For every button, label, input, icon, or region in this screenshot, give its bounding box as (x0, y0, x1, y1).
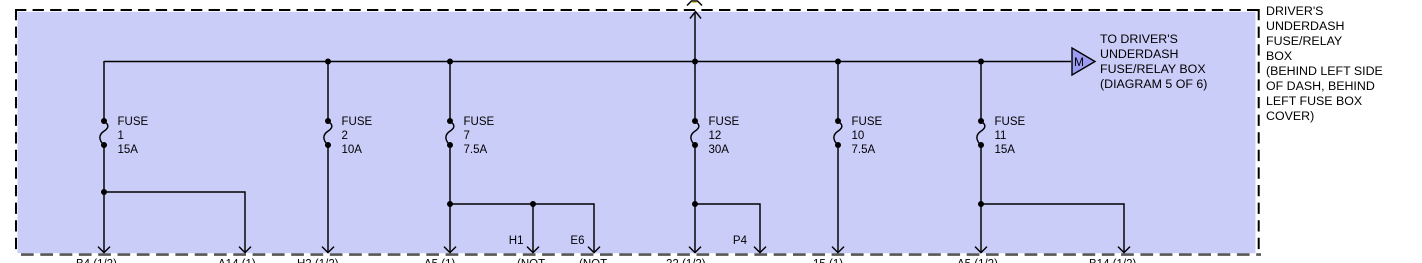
svg-text:2: 2 (342, 130, 348, 142)
wire: fuse 11 down to exit (980, 204, 982, 253)
svg-text:22 (1/2): 22 (1/2) (666, 259, 706, 263)
svg-text:H2 (1/2): H2 (1/2) (297, 259, 339, 263)
svg-text:A5 (1/2): A5 (1/2) (957, 259, 998, 263)
fuse F11 symbol (977, 118, 985, 148)
wire: fuse 11 column upper (980, 61, 982, 121)
label FUSE 12 30A (709, 116, 740, 156)
wire: fuse 11 branch right (981, 204, 1124, 253)
wire: fuse 11 to junction (980, 145, 982, 204)
wire: fuse 12 branch right P4 (695, 204, 760, 253)
node: fuse 7 branch junction (447, 201, 453, 207)
svg-text:OF DASH, BEHIND: OF DASH, BEHIND (1266, 79, 1375, 93)
svg-text:FUSE: FUSE (342, 116, 373, 128)
svg-text:1: 1 (118, 130, 124, 142)
svg-text:B4 (1/2): B4 (1/2) (76, 259, 117, 263)
svg-text:(DIAGRAM 5 OF 6): (DIAGRAM 5 OF 6) (1100, 77, 1207, 91)
wire: fuse 10 column upper (837, 61, 839, 121)
svg-text:M: M (1074, 55, 1084, 69)
node: bus junction fuse 11 (978, 59, 984, 65)
wire: fuse 2 down to exit (327, 145, 329, 253)
node: branch junction H1 (530, 201, 536, 207)
svg-text:COVER): COVER) (1266, 109, 1314, 123)
label FUSE 1 15A (118, 116, 149, 156)
off-page connector M (1072, 48, 1095, 75)
node: fuse 11 branch junction (978, 201, 984, 207)
fuse F7 symbol (446, 118, 454, 148)
label FUSE 7 7.5A (464, 116, 495, 156)
arrowhead down exit fuse7 a (444, 247, 456, 253)
wire: H1 drop (532, 204, 534, 253)
wire: fuse 1 down to exit (103, 192, 105, 253)
svg-text:15 (1): 15 (1) (813, 259, 843, 263)
fuse F12 symbol (691, 118, 699, 148)
svg-text:H1: H1 (509, 235, 524, 247)
svg-text:P4: P4 (733, 235, 748, 247)
label FUSE 10 7.5A (852, 116, 883, 156)
svg-text:(BEHIND LEFT SIDE: (BEHIND LEFT SIDE (1266, 64, 1383, 78)
arrowhead down exit fuse11 b (1118, 247, 1130, 253)
label: box title (right, outside) (1266, 4, 1383, 123)
svg-text:B14 (1/2): B14 (1/2) (1089, 259, 1136, 263)
svg-text:UNDERDASH: UNDERDASH (1100, 47, 1178, 61)
box border bottom (dashed, gray) (21, 253, 1261, 256)
svg-text:10A: 10A (342, 144, 363, 156)
wire: fuse 7 down to exit (449, 204, 451, 253)
box border top (dashed) (15, 9, 1261, 11)
svg-text:(NOT: (NOT (517, 259, 545, 263)
wire: fuse 2 column upper (327, 61, 329, 121)
connector symbol above box (clipped) (687, 1, 702, 6)
arrowhead down exit fuse1 b (239, 247, 251, 253)
svg-text:7: 7 (464, 130, 470, 142)
fuse/relay box enclosure (dashed) (18, 12, 1256, 253)
svg-text:10: 10 (852, 130, 865, 142)
wire: fuse 7 branch right (450, 204, 594, 253)
wire: fuse 1 branch right (104, 192, 245, 253)
arrowhead down exit E6 (588, 247, 600, 253)
label FUSE 11 15A (995, 116, 1026, 156)
node: bus junction fuse 10 (835, 59, 841, 65)
svg-text:A14 (1): A14 (1) (218, 259, 256, 263)
arrowhead down exit fuse11 a (975, 247, 987, 253)
svg-text:DRIVER'S: DRIVER'S (1266, 4, 1323, 18)
fuse F1 symbol (100, 118, 108, 148)
wire: bus to top connector arrow (694, 12, 696, 61)
label: to driver's underdash fuse/relay box (1100, 32, 1207, 91)
node: fuse 1 branch junction (101, 189, 107, 195)
label FUSE 2 10A (342, 116, 373, 156)
box border left (dashed) (15, 9, 17, 253)
svg-text:BOX: BOX (1266, 49, 1292, 63)
svg-text:15A: 15A (995, 144, 1016, 156)
node: bus junction fuse 7 (447, 59, 453, 65)
svg-text:15A: 15A (118, 144, 139, 156)
svg-text:7.5A: 7.5A (852, 144, 876, 156)
svg-text:A5 (1): A5 (1) (424, 259, 455, 263)
svg-text:FUSE: FUSE (995, 116, 1026, 128)
svg-text:FUSE: FUSE (464, 116, 495, 128)
wire: fuse 7 to junction (449, 145, 451, 204)
svg-text:TO DRIVER'S: TO DRIVER'S (1100, 32, 1178, 46)
arrowhead down exit fuse2 (322, 247, 334, 253)
wire: fuse 7 column upper (449, 61, 451, 121)
svg-text:UNDERDASH: UNDERDASH (1266, 19, 1344, 33)
fuse F2 symbol (324, 118, 332, 148)
wire: fuse 1 to junction (103, 145, 105, 192)
svg-text:LEFT FUSE BOX: LEFT FUSE BOX (1266, 94, 1362, 108)
svg-text:7.5A: 7.5A (464, 144, 488, 156)
bus wire (horizontal) (104, 61, 1071, 63)
connector symbol highlight (692, 2, 697, 3)
node: fuse 12 branch junction (692, 201, 698, 207)
fuse F10 symbol (834, 118, 842, 148)
node: bus junction fuse 12 (692, 59, 698, 65)
svg-text:FUSE/RELAY: FUSE/RELAY (1266, 34, 1342, 48)
wire: fuse 12 column upper (694, 61, 696, 121)
arrowhead down exit H1 (527, 247, 539, 253)
arrowhead down exit P4 (754, 247, 766, 253)
svg-text:FUSE: FUSE (709, 116, 740, 128)
svg-text:E6: E6 (570, 235, 584, 247)
svg-text:FUSE: FUSE (118, 116, 149, 128)
arrowhead up at box edge (690, 12, 701, 19)
svg-text:12: 12 (709, 130, 722, 142)
svg-text:11: 11 (995, 130, 1007, 142)
svg-text:FUSE/RELAY BOX: FUSE/RELAY BOX (1100, 62, 1206, 76)
svg-text:30A: 30A (709, 144, 730, 156)
arrowhead down exit fuse10 (832, 247, 844, 253)
arrowhead down exit fuse1 a (98, 247, 110, 253)
box border right (dashed) (1258, 9, 1260, 253)
arrowhead down exit fuse12 a (689, 247, 701, 253)
svg-text:FUSE: FUSE (852, 116, 883, 128)
wire: fuse 12 to junction (694, 145, 696, 204)
node: bus junction fuse 2 (325, 59, 331, 65)
wire: fuse 12 down to exit (694, 204, 696, 253)
wire: fuse 1 column upper (103, 61, 105, 121)
svg-text:(NOT: (NOT (579, 259, 607, 263)
wire: fuse 10 down to exit (837, 145, 839, 253)
